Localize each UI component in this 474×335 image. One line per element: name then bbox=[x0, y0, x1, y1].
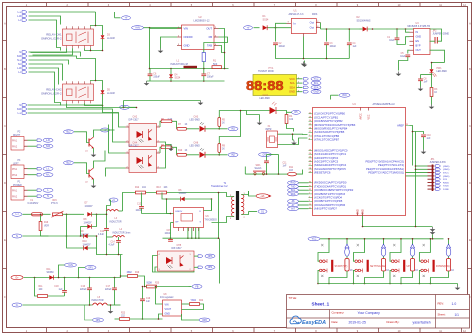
svg-text:Date:: Date: bbox=[332, 320, 339, 324]
wire bbox=[142, 193, 219, 240]
svg-text:23: 23 bbox=[309, 149, 311, 151]
ground bbox=[160, 142, 174, 168]
resistor R7 1K bbox=[177, 124, 199, 130]
svg-text:PE0(PTCY0/SDA1/ACP4/ACO): PE0(PTCY0/SDA1/ACP4/ACO) bbox=[365, 160, 404, 164]
wire bbox=[67, 59, 111, 108]
led CLK1 LED-SMD bbox=[260, 95, 277, 114]
svg-text:R19: R19 bbox=[135, 272, 140, 274]
svg-text:INDUCTOR1mH: INDUCTOR1mH bbox=[171, 63, 189, 66]
svg-text:FB: FB bbox=[209, 35, 213, 39]
diode D7 1N4007 bbox=[85, 203, 107, 217]
svg-text:1uF: 1uF bbox=[353, 46, 358, 48]
svg-text:31: 31 bbox=[309, 185, 311, 187]
svg-text:DOWN(DW): DOWN(DW) bbox=[436, 265, 450, 268]
svg-text:1: 1 bbox=[127, 151, 128, 153]
company text bbox=[332, 311, 381, 316]
capacitor C17 220uF bbox=[105, 278, 117, 306]
svg-text:OP1: OP1 bbox=[96, 320, 101, 322]
svg-text:C: C bbox=[4, 125, 6, 128]
diode D3 LL4148 bbox=[101, 29, 116, 51]
relay K2 RELAY-CH2 OMRON_G2R-2 bbox=[41, 81, 94, 103]
svg-text:C19: C19 bbox=[146, 298, 151, 300]
resistor R1 5K0 bbox=[212, 60, 222, 69]
svg-text:LM2596SX-12: LM2596SX-12 bbox=[194, 19, 211, 22]
diode D1 SS34 bbox=[263, 15, 292, 30]
EasyEDA logo bbox=[290, 316, 326, 326]
resistor R6 2.2K bbox=[160, 119, 177, 129]
voltage regulator U2 LM2596SX-12 bbox=[177, 16, 219, 50]
rev text bbox=[438, 302, 457, 307]
svg-text:10uF: 10uF bbox=[389, 40, 395, 42]
svg-text:VOUT: VOUT bbox=[165, 308, 172, 311]
svg-text:ONOFF: ONOFF bbox=[184, 35, 194, 39]
svg-text:EasyEDA: EasyEDA bbox=[302, 320, 326, 326]
svg-text:LL4148: LL4148 bbox=[107, 93, 115, 95]
svg-text:OP3: OP3 bbox=[208, 256, 213, 258]
svg-text:1.0: 1.0 bbox=[452, 302, 457, 306]
svg-text:1K: 1K bbox=[222, 148, 225, 150]
fuse F1 6.3A/250V bbox=[28, 200, 51, 216]
ground bbox=[144, 81, 150, 86]
svg-text:yaserfazlieh: yaserfazlieh bbox=[413, 321, 431, 325]
transistor Q1 bbox=[85, 130, 102, 153]
wire bbox=[362, 216, 433, 228]
svg-text:PW1: PW1 bbox=[437, 68, 443, 70]
svg-text:LED-SMD: LED-SMD bbox=[190, 120, 201, 122]
wire bbox=[111, 101, 201, 109]
pushbutton S4 DOWN(DW) 1K bbox=[419, 238, 455, 284]
svg-text:Switch: Switch bbox=[255, 167, 262, 170]
svg-text:1uF: 1uF bbox=[146, 301, 151, 303]
svg-text:1/1: 1/1 bbox=[455, 313, 460, 317]
inductor L3 INDUCTOR-3mm bbox=[107, 210, 123, 224]
svg-text:1nF: 1nF bbox=[424, 82, 429, 84]
svg-text:C14: C14 bbox=[111, 242, 116, 244]
svg-text:JUMPER-6-PIN: JUMPER-6-PIN bbox=[430, 162, 446, 164]
svg-text:GND: GND bbox=[165, 313, 171, 316]
svg-text:4: 4 bbox=[158, 151, 159, 153]
svg-text:(SCK1/ADC1/PTCY1)PC1: (SCK1/ADC1/PTCY1)PC1 bbox=[314, 152, 347, 156]
svg-text:PTC-5: PTC-5 bbox=[51, 203, 58, 205]
svg-text:GND: GND bbox=[289, 90, 295, 94]
diode D9 1N4007 bbox=[49, 231, 97, 238]
connector J4 3-pin header L-L/L-R/L-I bbox=[17, 11, 27, 22]
ground bbox=[198, 101, 204, 106]
net flags L-L/N-L bbox=[28, 167, 54, 177]
svg-text:PE1(PTCY/SCL1/T4): PE1(PTCY/SCL1/T4) bbox=[378, 163, 404, 167]
svg-text:UP: UP bbox=[407, 265, 411, 268]
svg-text:PE3(PTCY/ADC7/T3/MOSI1): PE3(PTCY/ADC7/T3/MOSI1) bbox=[368, 171, 404, 175]
svg-text:DIP-C817: DIP-C817 bbox=[172, 248, 183, 250]
svg-text:(ADC3/PTCY3)PC3: (ADC3/PTCY3)PC3 bbox=[314, 160, 339, 164]
svg-text:1: 1 bbox=[190, 254, 191, 256]
svg-text:SDA: SDA bbox=[314, 86, 319, 89]
svg-text:INDUCTOR 3mm: INDUCTOR 3mm bbox=[113, 232, 131, 234]
title text Sheet_1 bbox=[289, 296, 330, 307]
svg-text:(GND): (GND) bbox=[443, 169, 450, 171]
wire bbox=[410, 126, 424, 166]
svg-text:PIN2: PIN2 bbox=[12, 175, 18, 177]
capacitor C8 1nF bbox=[418, 74, 433, 91]
connector P2 RIGHT bbox=[11, 132, 28, 151]
svg-text:SR360: SR360 bbox=[47, 272, 55, 274]
wire bbox=[276, 23, 360, 60]
svg-text:Transformer-3-2: Transformer-3-2 bbox=[211, 185, 228, 188]
svg-text:D: D bbox=[469, 182, 471, 185]
resistor R11 100 bbox=[35, 278, 65, 298]
net flag V-IN2 bbox=[58, 263, 77, 278]
capacitor C18 1uF bbox=[54, 278, 67, 297]
net flag +V bbox=[244, 26, 260, 30]
capacitor C6 330uF bbox=[148, 69, 161, 82]
title block frame bbox=[287, 295, 470, 329]
svg-text:25: 25 bbox=[309, 157, 311, 159]
resistor R23 152 bbox=[115, 313, 163, 321]
svg-text:PE2(PTCY1/ADC6/ACP3/SS1): PE2(PTCY1/ADC6/ACP3/SS1) bbox=[366, 167, 404, 171]
svg-text:Sheet_1: Sheet_1 bbox=[312, 302, 330, 307]
svg-text:START(ST): START(ST) bbox=[335, 265, 348, 268]
svg-text:C: C bbox=[469, 125, 471, 128]
svg-text:2: 2 bbox=[309, 196, 310, 198]
net flag D5f bbox=[287, 110, 301, 114]
resistor R3 1K bbox=[430, 73, 438, 105]
net flag +V2 bbox=[109, 198, 118, 206]
svg-text:TM1637 MOD: TM1637 MOD bbox=[258, 70, 274, 73]
led CH6 LED-SMD bbox=[190, 142, 221, 158]
svg-text:(OC1A/PTCY1)PB1: (OC1A/PTCY1)PB1 bbox=[314, 115, 339, 119]
svg-text:C18: C18 bbox=[54, 286, 59, 288]
regulator U8 TL431 bbox=[160, 294, 182, 316]
wire bbox=[119, 275, 122, 277]
net flag O+ bbox=[11, 275, 23, 279]
wire bbox=[97, 206, 123, 255]
diode D6 1N4007 bbox=[167, 190, 213, 201]
svg-text:VIN: VIN bbox=[184, 27, 189, 31]
diode D2 SD1004AWS bbox=[357, 16, 414, 31]
resistor R12 104 bbox=[135, 187, 147, 194]
capacitor C3 100uF bbox=[324, 43, 337, 48]
svg-text:13: 13 bbox=[309, 116, 311, 118]
ground bbox=[396, 72, 402, 77]
wire bbox=[318, 284, 458, 286]
display module HY1 TM1637 MOD 88:88 bbox=[246, 67, 303, 96]
capacitor C10 1nF bbox=[421, 135, 431, 150]
svg-text:Out: Out bbox=[310, 26, 315, 30]
svg-text:O-: O- bbox=[16, 305, 19, 307]
svg-text:1nF: 1nF bbox=[427, 138, 432, 140]
svg-text:(SCK0/SCK/PTCY5)PB5: (SCK0/SCK/PTCY5)PB5 bbox=[314, 130, 345, 134]
ground bbox=[247, 111, 263, 126]
svg-text:1K: 1K bbox=[451, 270, 454, 272]
svg-text:(OC1B/SS/PTCY2)PB2: (OC1B/SS/PTCY2)PB2 bbox=[314, 119, 343, 123]
svg-text:AVCC: AVCC bbox=[360, 113, 363, 120]
svg-text:Drawn By:: Drawn By: bbox=[387, 320, 400, 324]
svg-text:VIN: VIN bbox=[165, 304, 169, 307]
resistor R19 1502 bbox=[121, 255, 145, 287]
svg-text:BYP: BYP bbox=[416, 45, 421, 48]
svg-text:1: 1 bbox=[309, 193, 310, 195]
svg-text:IN: IN bbox=[416, 31, 419, 34]
svg-text:2: 2 bbox=[127, 166, 128, 168]
svg-text:(XTAL1/TOSC1)PB6: (XTAL1/TOSC1)PB6 bbox=[314, 134, 340, 138]
net flag V-IN bbox=[132, 26, 182, 30]
svg-text:(XCK0/T0/PTCY0)PD4: (XCK0/T0/PTCY0)PD4 bbox=[314, 196, 342, 200]
svg-text:DIP-C817: DIP-C817 bbox=[129, 120, 140, 122]
net flag BL1 bbox=[120, 105, 137, 109]
svg-text:R23: R23 bbox=[121, 313, 126, 315]
svg-text:R12: R12 bbox=[135, 187, 140, 189]
drawnby text bbox=[387, 320, 431, 325]
svg-text:V-IN: V-IN bbox=[68, 265, 73, 267]
svg-text:V-IN: V-IN bbox=[135, 28, 140, 30]
net flag +V bbox=[115, 12, 131, 20]
net flag OP4 bbox=[194, 265, 215, 269]
svg-text:(GND): (GND) bbox=[443, 166, 450, 168]
svg-text:9: 9 bbox=[309, 200, 310, 202]
svg-text:+V: +V bbox=[247, 28, 250, 30]
svg-text:(RESET)PC6: (RESET)PC6 bbox=[314, 171, 331, 175]
svg-text:5VCC: 5VCC bbox=[443, 173, 449, 175]
svg-text:1N4007: 1N4007 bbox=[84, 222, 93, 224]
wire bbox=[150, 28, 228, 69]
wire bbox=[131, 192, 187, 194]
svg-text:Out: Out bbox=[310, 21, 315, 25]
diode D8 1N4007 bbox=[81, 214, 97, 228]
connector J6 3-pin header N/N-R/L-L bbox=[17, 104, 27, 115]
svg-text:(SCL0/ADC5/PTCY5)PC5: (SCL0/ADC5/PTCY5)PC5 bbox=[314, 167, 346, 171]
wire bbox=[147, 28, 229, 82]
inductor L5 INDUCTOR bbox=[92, 297, 121, 305]
resistor R8 2.2K bbox=[160, 145, 177, 155]
svg-text:(TXD0/OC4A/PTCY0)PD1: (TXD0/OC4A/PTCY0)PD1 bbox=[314, 184, 347, 188]
svg-text:L-I: L-I bbox=[18, 72, 21, 74]
svg-text:C13: C13 bbox=[100, 231, 105, 233]
svg-text:R13: R13 bbox=[157, 187, 162, 189]
svg-text:8: 8 bbox=[309, 139, 310, 141]
ground bbox=[158, 49, 164, 54]
ground bbox=[429, 105, 435, 110]
resistor R4 102 bbox=[285, 115, 294, 132]
net flag bbox=[219, 153, 238, 157]
svg-text:INDUCTOR: INDUCTOR bbox=[92, 300, 104, 302]
resistor R22 Y302 bbox=[182, 300, 204, 310]
svg-text:330uF: 330uF bbox=[207, 77, 214, 79]
net flag N2 bbox=[12, 234, 49, 238]
svg-text:FB: FB bbox=[196, 286, 199, 288]
svg-text:(MISO1/ADC0/PTCY0)PC0: (MISO1/ADC0/PTCY0)PC0 bbox=[314, 148, 348, 152]
resistor R10 1K bbox=[177, 150, 199, 156]
svg-text:(SDA0/ADC4/PTCY4)PC4: (SDA0/ADC4/PTCY4)PC4 bbox=[314, 163, 347, 167]
connector P3 LEFT bbox=[11, 160, 28, 179]
net flag OP3 bbox=[194, 254, 215, 258]
net flag OP2 bbox=[182, 314, 211, 322]
svg-text:C16: C16 bbox=[81, 286, 86, 288]
resistor R9 1K bbox=[218, 140, 226, 155]
svg-text:GND: GND bbox=[416, 36, 422, 39]
net flag +V bbox=[101, 128, 115, 132]
wire bbox=[29, 52, 81, 106]
svg-text:CH5: CH5 bbox=[177, 245, 182, 247]
net flag BL3 bbox=[64, 161, 85, 165]
voltage regulator U1 AMS1117-3.3 bbox=[287, 10, 321, 37]
wire bbox=[28, 105, 119, 118]
svg-text:L-I: L-I bbox=[16, 214, 19, 216]
svg-text:6.3A/250V: 6.3A/250V bbox=[28, 202, 39, 205]
svg-text:1nF: 1nF bbox=[283, 165, 288, 167]
svg-text:D: D bbox=[4, 182, 6, 185]
diode D4 SS24 bbox=[169, 69, 181, 82]
svg-text:330uF: 330uF bbox=[153, 77, 160, 79]
svg-text:(AIN1/PTCY0)PD7: (AIN1/PTCY0)PD7 bbox=[314, 207, 337, 211]
svg-text:2: 2 bbox=[127, 140, 128, 142]
svg-text:30: 30 bbox=[309, 182, 311, 184]
svg-text:D13B: D13B bbox=[443, 189, 449, 191]
svg-text:10: 10 bbox=[309, 204, 311, 206]
svg-text:OP4: OP4 bbox=[208, 267, 213, 269]
svg-text:28: 28 bbox=[309, 168, 311, 170]
svg-text:100uF: 100uF bbox=[279, 46, 286, 48]
ground bbox=[430, 227, 436, 232]
net flags VCC/SCL/SDA/GND bbox=[304, 77, 322, 94]
capacitor C2 100uF bbox=[273, 43, 286, 48]
svg-text:N-I: N-I bbox=[18, 64, 21, 66]
wire bbox=[156, 287, 163, 320]
net flag L-I bbox=[12, 212, 29, 216]
wire bbox=[278, 133, 308, 144]
svg-text:15: 15 bbox=[309, 124, 311, 126]
jumper JP2 JUMPER-2SMD bbox=[430, 29, 450, 44]
capacitor C14 4.3uF bbox=[109, 237, 121, 255]
capacitor C7 330uF bbox=[201, 69, 214, 82]
svg-text:VDR: VDR bbox=[44, 225, 49, 227]
microcontroller U4 ATMEGA328PB-AU bbox=[309, 103, 410, 216]
svg-text:Sheet:: Sheet: bbox=[438, 313, 446, 317]
relay K1 RELAY-CH1 OMRON_G2R-2 bbox=[41, 26, 94, 48]
svg-text:BL2: BL2 bbox=[66, 132, 71, 134]
svg-text:7: 7 bbox=[309, 135, 310, 137]
wire bbox=[187, 192, 220, 284]
voltage regulator U3 MIC5205-3.3YM5 bbox=[408, 22, 431, 55]
svg-text:24: 24 bbox=[309, 153, 311, 155]
net flag GND1 bbox=[249, 210, 268, 214]
svg-text:(CLKO/ICP1/PTCY0)PB0: (CLKO/ICP1/PTCY0)PB0 bbox=[314, 112, 345, 116]
svg-text:R22: R22 bbox=[199, 300, 204, 302]
net flag BL2 bbox=[64, 130, 85, 134]
pushbutton S3 UP 1K bbox=[389, 238, 418, 284]
capacitor C12 100nF bbox=[136, 193, 144, 214]
svg-text:(XTAL2/TOSC2)PB7: (XTAL2/TOSC2)PB7 bbox=[314, 138, 340, 142]
svg-text:GND: GND bbox=[313, 92, 318, 94]
svg-text:32: 32 bbox=[309, 189, 311, 191]
net flag VCC bbox=[331, 93, 351, 99]
transistor Q2 bbox=[85, 151, 106, 184]
capacitor C15 100nF bbox=[165, 223, 189, 245]
svg-text:VCC: VCC bbox=[312, 239, 317, 241]
svg-text:2: 2 bbox=[190, 269, 191, 271]
svg-text:+V: +V bbox=[125, 18, 128, 20]
svg-text:(MOSI0/TXD1/OC2A/PTCY3)PB3: (MOSI0/TXD1/OC2A/PTCY3)PB3 bbox=[314, 123, 356, 127]
ground bbox=[421, 150, 427, 155]
net flag FB1 bbox=[189, 285, 203, 289]
net flag O- bbox=[12, 303, 93, 307]
svg-text:CLK1: CLK1 bbox=[263, 95, 269, 97]
svg-text:1uF: 1uF bbox=[59, 289, 64, 291]
svg-text:PIN1: PIN1 bbox=[12, 169, 18, 171]
svg-text:OUT: OUT bbox=[416, 49, 422, 52]
ground bbox=[302, 61, 308, 68]
svg-text:N-R: N-R bbox=[17, 56, 21, 58]
capacitor C5 10uF bbox=[399, 53, 411, 71]
svg-text:26: 26 bbox=[309, 160, 311, 162]
wire bbox=[102, 130, 111, 151]
svg-text:SCL: SCL bbox=[314, 83, 319, 85]
svg-text:1K: 1K bbox=[222, 122, 225, 124]
net flag VCC bbox=[308, 237, 444, 241]
svg-text:VCC: VCC bbox=[289, 77, 295, 81]
svg-text:OMRON_G2R-2: OMRON_G2R-2 bbox=[41, 36, 62, 40]
svg-text:+V1: +V1 bbox=[260, 196, 265, 198]
svg-text:SD1004AWS: SD1004AWS bbox=[357, 19, 371, 22]
svg-text:27: 27 bbox=[309, 164, 311, 166]
net flag OP5 bbox=[85, 305, 115, 322]
svg-text:INDUCTOR: INDUCTOR bbox=[110, 221, 122, 223]
svg-text:17: 17 bbox=[309, 131, 311, 133]
svg-text:SW1: SW1 bbox=[256, 165, 262, 167]
svg-text:(OC2B/INT1/PTCY0)PD3: (OC2B/INT1/PTCY0)PD3 bbox=[314, 192, 345, 196]
net flags A6/A7/INT bbox=[288, 199, 309, 210]
svg-text:220uF: 220uF bbox=[80, 289, 87, 291]
svg-text:4: 4 bbox=[159, 254, 160, 256]
svg-text:C17: C17 bbox=[106, 286, 111, 288]
svg-text:3: 3 bbox=[159, 269, 160, 271]
resistor R13 103 bbox=[157, 187, 169, 194]
svg-text:1K: 1K bbox=[434, 92, 437, 94]
capacitor C16 220uF bbox=[80, 278, 92, 306]
svg-text:Company:: Company: bbox=[332, 311, 345, 315]
wire bbox=[29, 12, 96, 51]
switch SW1 bbox=[253, 165, 266, 175]
svg-text:GND: GND bbox=[184, 44, 190, 48]
svg-text:TAB: TAB bbox=[207, 44, 212, 48]
svg-text:(OC3B/OC4B/INT0/PTCY0)PD2: (OC3B/OC4B/INT0/PTCY0)PD2 bbox=[314, 188, 354, 192]
svg-text:VCC: VCC bbox=[342, 95, 347, 97]
inductor L4 INDUCTOR-3mm bbox=[107, 229, 131, 237]
svg-text:PIN2: PIN2 bbox=[12, 147, 18, 149]
svg-text:N-R: N-R bbox=[17, 109, 21, 111]
svg-text:4.3uF: 4.3uF bbox=[98, 234, 104, 236]
svg-text:TXD0: TXD0 bbox=[443, 186, 449, 188]
svg-text:AMS1117-3.3: AMS1117-3.3 bbox=[289, 13, 305, 16]
ground bbox=[108, 304, 114, 313]
svg-text:100uF: 100uF bbox=[330, 46, 337, 48]
connector P1 POWER bbox=[11, 182, 28, 201]
svg-text:LED-SMD: LED-SMD bbox=[260, 98, 271, 100]
svg-text:OMRON_G2R-2: OMRON_G2R-2 bbox=[41, 91, 62, 95]
svg-text:SDA: SDA bbox=[291, 193, 296, 196]
svg-text:L-R: L-R bbox=[46, 140, 50, 142]
led PW1 LED-SMD bbox=[430, 62, 448, 77]
svg-text:10uF: 10uF bbox=[400, 56, 406, 58]
svg-text:(OC0A/AIN0/PTCY0)PD6: (OC0A/AIN0/PTCY0)PD6 bbox=[314, 203, 346, 207]
wire bbox=[406, 29, 445, 63]
svg-text:MIC5205 3.3YM5-TR: MIC5205 3.3YM5-TR bbox=[408, 25, 431, 28]
wire bbox=[24, 277, 119, 279]
svg-text:29: 29 bbox=[309, 172, 311, 174]
svg-text:TITLE:: TITLE: bbox=[289, 296, 298, 300]
svg-text:OP1: OP1 bbox=[88, 267, 93, 269]
wire bbox=[406, 165, 428, 226]
svg-text:N-R: N-R bbox=[46, 146, 50, 148]
